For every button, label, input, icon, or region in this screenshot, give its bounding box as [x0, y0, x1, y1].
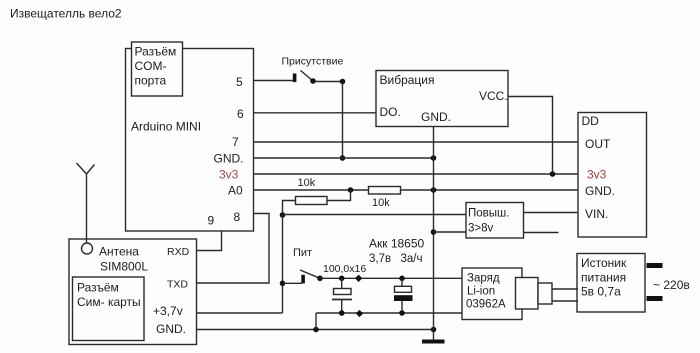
- svg-text:TXD: TXD: [167, 279, 188, 291]
- svg-text:+3,7v: +3,7v: [153, 304, 183, 318]
- node C1 top junction: [339, 276, 345, 282]
- wire Повыш lower right stub: [524, 232, 559, 234]
- box Вибрация: [376, 71, 508, 127]
- wire to Пит switch: [283, 282, 303, 284]
- wire gnd stub up: [315, 313, 317, 330]
- node S2 pivot: [317, 276, 323, 282]
- label Разъём COM-порта: [135, 45, 177, 88]
- wire SIM +3,7v: [197, 312, 283, 314]
- svg-text:DD: DD: [582, 114, 600, 128]
- svg-text:DO.: DO.: [380, 105, 401, 119]
- svg-text:10k: 10k: [372, 197, 390, 209]
- box Повыш 3>8v: [466, 203, 524, 239]
- node battery minus diamond: [356, 310, 363, 317]
- svg-text:GND.: GND.: [585, 184, 615, 198]
- switch S1 arm: [301, 71, 314, 82]
- svg-text:Разъём: Разъём: [77, 281, 119, 295]
- resistor R2 10k: [369, 187, 401, 195]
- svg-text:Истоник: Истоник: [581, 256, 627, 270]
- wire pin9 to RXD: [197, 231, 222, 251]
- box SIM800L: [69, 239, 197, 345]
- svg-text:10k: 10k: [298, 177, 316, 189]
- switch S2 fixed contact: [301, 275, 305, 284]
- node S1 pivot: [310, 78, 316, 84]
- wire switch to corner: [313, 81, 343, 83]
- wire battery plus rail: [320, 277, 462, 279]
- ground: [422, 340, 445, 344]
- svg-text:~ 220в: ~ 220в: [653, 278, 690, 292]
- capacitor C1 minus plate: [332, 299, 352, 301]
- svg-text:Сим- карты: Сим- карты: [77, 295, 141, 309]
- svg-text:Присутствие: Присутствие: [282, 56, 344, 68]
- svg-text:OUT: OUT: [585, 137, 611, 151]
- svg-text:5: 5: [236, 75, 243, 89]
- svg-text:3>8v: 3>8v: [468, 223, 494, 235]
- wire SIM GND: [197, 329, 434, 331]
- connector USB plug: [538, 283, 552, 304]
- node Пит tap: [280, 281, 286, 287]
- svg-text:5в 0,7а: 5в 0,7а: [581, 285, 621, 299]
- capacitor C2 plus plate: [395, 286, 412, 292]
- node C1 bottom junction: [339, 310, 345, 316]
- svg-text:A0: A0: [228, 184, 243, 198]
- node A0-R1 junction: [348, 187, 354, 193]
- svg-text:Arduino MINI: Arduino MINI: [131, 120, 201, 134]
- node SIM GND end: [431, 327, 437, 333]
- svg-text:GND.: GND.: [156, 322, 186, 336]
- svg-text:GND.: GND.: [421, 110, 451, 124]
- svg-text:COM-: COM-: [135, 59, 167, 73]
- svg-text:3v3: 3v3: [587, 168, 607, 182]
- wire switch down to GND line: [342, 82, 344, 159]
- svg-text:RXD: RXD: [167, 246, 190, 258]
- svg-text:Разъём: Разъём: [135, 45, 177, 59]
- pin AC terminal upper: [647, 263, 663, 268]
- node Повыш gnd junction: [431, 229, 437, 235]
- svg-text:7: 7: [232, 135, 239, 149]
- wire main ground vertical: [433, 127, 435, 341]
- node switch-GND junction: [340, 155, 346, 161]
- svg-text:Вибрация: Вибрация: [380, 73, 435, 87]
- node 3v3-VCC junction: [550, 171, 556, 177]
- box Заряд Li-ion 03962A: [462, 268, 522, 320]
- wire A0 line: [254, 189, 579, 191]
- wire GND line: [254, 157, 434, 159]
- svg-text:3v3: 3v3: [219, 168, 239, 182]
- connector COM box: [132, 42, 183, 96]
- box сим-карта connector: [73, 277, 145, 341]
- box Источник питания: [577, 254, 645, 313]
- svg-text:03962A: 03962A: [466, 299, 506, 311]
- svg-text:Повыш.: Повыш.: [468, 208, 509, 220]
- wire plug lower: [552, 300, 578, 302]
- wire minus rail: [316, 312, 462, 314]
- wire 3v3 line: [254, 173, 579, 175]
- svg-text:VCC.: VCC.: [479, 89, 508, 103]
- svg-text:питания: питания: [581, 271, 626, 285]
- node SIM GND tap: [313, 327, 319, 333]
- wire plug upper: [552, 288, 578, 290]
- resistor R1 10k: [296, 197, 328, 205]
- svg-text:3,7в: 3,7в: [369, 253, 391, 265]
- node A0-gnd junction: [431, 187, 437, 193]
- wire pin6 to DO: [254, 112, 377, 114]
- node C2 top junction: [399, 276, 405, 282]
- capacitor C1 plus plate: [334, 289, 352, 295]
- svg-text:порта: порта: [135, 74, 167, 88]
- svg-text:GND.: GND.: [214, 152, 244, 166]
- svg-text:VIN.: VIN.: [585, 207, 608, 221]
- wire R1 left lead: [283, 201, 296, 216]
- node corner: [340, 79, 346, 85]
- capacitor C2 minus plate: [394, 295, 413, 301]
- wire pin5: [254, 80, 294, 82]
- svg-text:Антена: Антена: [99, 245, 139, 259]
- switch S1 fixed contact: [293, 74, 297, 83]
- box DD: [578, 113, 647, 238]
- svg-text:Акк 18650: Акк 18650: [369, 237, 425, 251]
- capacitor C2 bottom lead: [401, 301, 403, 313]
- capacitor C2 top lead: [401, 278, 403, 286]
- antenna W1: [77, 163, 95, 254]
- capacitor C1 bottom lead: [341, 300, 343, 314]
- node R1-rail junction: [280, 212, 286, 218]
- wire VCC to 3v3: [508, 97, 553, 175]
- wire pin8 to TXD: [197, 214, 270, 284]
- svg-text:8: 8: [234, 210, 241, 224]
- svg-text:Пит: Пит: [293, 247, 312, 259]
- svg-text:Li-ion: Li-ion: [467, 286, 495, 298]
- svg-text:3а/ч: 3а/ч: [401, 253, 423, 265]
- node C2 bottom junction: [399, 310, 405, 316]
- svg-text:9: 9: [208, 214, 215, 228]
- node GND end: [431, 155, 437, 161]
- wire rail to Повыш: [283, 214, 467, 216]
- node battery plus diamond: [355, 275, 362, 282]
- pin AC terminal lower: [647, 296, 663, 301]
- capacitor C1 top lead: [341, 278, 343, 288]
- connector USB socket: [516, 278, 539, 310]
- svg-text:Извещателль вело2: Извещателль вело2: [10, 7, 122, 21]
- wire Повыш gnd pin: [434, 231, 467, 233]
- op-amp U1 Arduino MINI box: [126, 49, 254, 232]
- svg-text:100,0x16: 100,0x16: [323, 263, 366, 275]
- svg-text:6: 6: [237, 107, 244, 121]
- wire pin7 to OUT: [254, 141, 579, 143]
- svg-text:SIM800L: SIM800L: [100, 260, 148, 274]
- switch S2 arm: [300, 270, 320, 278]
- wire Повыш out to VIN: [524, 212, 579, 214]
- wire R1 right lead: [327, 190, 351, 201]
- svg-text:Заряд: Заряд: [467, 273, 500, 285]
- wire +3.7v vertical: [282, 215, 284, 313]
